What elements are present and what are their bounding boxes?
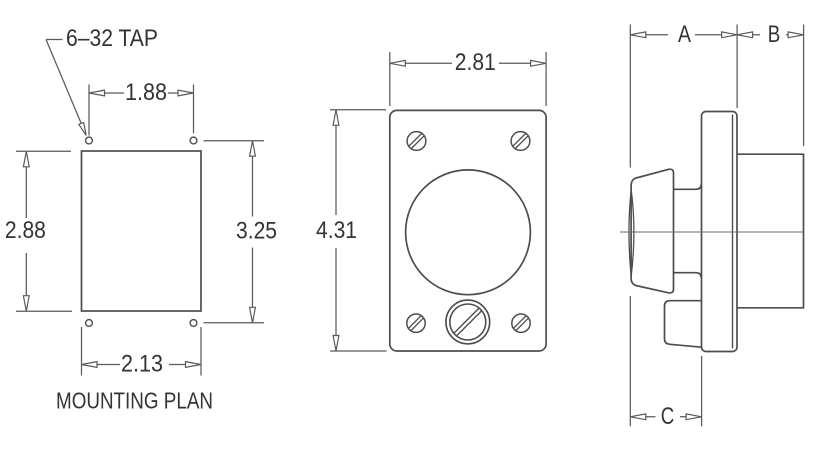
dimension 2.81 plate width [390,49,546,106]
boot face inner arc [629,190,634,276]
svg-text:C: C [661,403,675,430]
extension line middle (A/B at flange face) [736,25,738,109]
neck upper edge [672,184,701,190]
screw top-left [407,132,426,151]
svg-text:6–32 TAP: 6–32 TAP [66,25,158,52]
hole top-left 6-32 tap [86,137,93,144]
dimension 3.25 hole spacing vertical [204,141,278,323]
dimension C [630,403,701,430]
hole top-right 6-32 tap [190,137,197,144]
flange face inner line [732,115,734,349]
hole bottom-left 6-32 tap [86,320,93,327]
svg-text:MOUNTING PLAN: MOUNTING PLAN [56,388,213,414]
dimension 1.88 top hole spacing [89,79,194,136]
svg-text:2.13: 2.13 [121,351,163,378]
svg-text:2.88: 2.88 [5,217,46,244]
dimension 2.88 cutout height [5,151,72,311]
svg-text:B: B [768,21,781,48]
screw bottom-left [407,314,425,332]
center captive screw [446,300,490,344]
mounting cutout rectangle [82,151,202,311]
label 6-32 TAP with leader arrow [46,25,158,135]
dimension 4.31 plate height [316,110,387,351]
extension line C right (flange front face) [701,356,703,426]
centerline [620,231,804,233]
extension line left (A/C) [629,25,631,168]
coupling boot (side) [631,169,673,293]
dimension 2.13 cutout width [82,327,202,378]
dimension B [737,21,804,48]
latch tab lower [665,301,702,348]
hole bottom-right 6-32 tap [190,320,197,327]
svg-text:3.25: 3.25 [236,218,277,245]
svg-text:2.81: 2.81 [455,49,496,76]
svg-text:4.31: 4.31 [316,217,357,244]
neck lower edge [672,273,701,279]
screw top-right [511,132,530,151]
connector body block [737,154,804,308]
screw bottom-right [512,314,530,332]
dimension A [630,21,737,48]
receptacle opening circle [406,170,531,295]
extension line right (B) [803,25,805,147]
flange plate (side) [702,112,738,352]
svg-text:A: A [678,21,691,48]
flange plate front [390,110,546,351]
svg-text:1.88: 1.88 [125,79,167,106]
